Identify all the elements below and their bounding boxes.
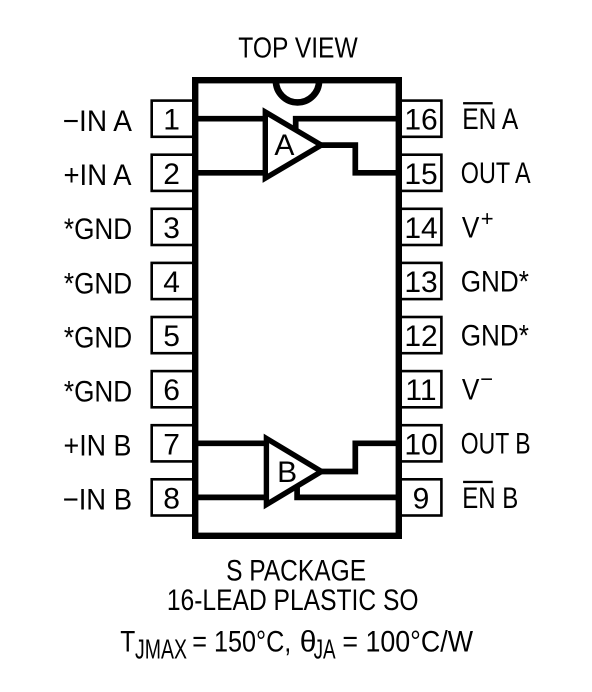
svg-text:16: 16 — [404, 104, 437, 137]
pin 11 — [399, 371, 442, 407]
pin 2 — [152, 155, 195, 191]
svg-text:5: 5 — [163, 320, 180, 353]
pin 14 — [399, 209, 442, 245]
svg-text:OUT B: OUT B — [461, 428, 531, 461]
svg-text:1: 1 — [163, 104, 180, 137]
svg-text:8: 8 — [163, 482, 180, 515]
svg-text:S PACKAGE: S PACKAGE — [226, 555, 366, 588]
label V+ (pin 14) — [462, 206, 494, 244]
pin 9 — [399, 479, 442, 515]
svg-text:V: V — [462, 211, 480, 244]
wire op-amp B output to pin10 — [320, 443, 399, 471]
wire pin1 to op-amp A — [195, 116, 268, 122]
pin 4 — [152, 263, 195, 299]
label V- (pin 11) — [462, 367, 493, 407]
wire EN A from pin16 to op-amp A — [296, 119, 399, 131]
svg-text:*GND: *GND — [64, 213, 132, 246]
svg-text:A: A — [274, 129, 294, 162]
wire op-amp A output to pin15 — [320, 145, 399, 173]
pin 12 — [399, 317, 442, 353]
svg-text:−IN A: −IN A — [63, 105, 132, 138]
svg-text:= 150°C,: = 150°C, — [192, 625, 291, 658]
svg-text:+IN B: +IN B — [64, 430, 132, 463]
pin 8 — [152, 479, 195, 515]
pin 6 — [152, 371, 195, 407]
svg-text:2: 2 — [163, 158, 180, 191]
svg-text:7: 7 — [163, 428, 180, 461]
pin 15 — [399, 155, 442, 191]
svg-text:−: − — [480, 367, 493, 392]
pin 1 — [152, 101, 195, 137]
svg-text:*GND: *GND — [64, 321, 132, 354]
pin 7 — [152, 425, 195, 461]
svg-text:JMAX: JMAX — [135, 634, 187, 665]
svg-text:GND*: GND* — [461, 265, 529, 298]
svg-text:4: 4 — [163, 266, 180, 299]
label EN B (pin 9, overline) — [462, 481, 518, 515]
svg-text:14: 14 — [404, 212, 437, 245]
label EN A (pin 16, overline) — [462, 102, 518, 136]
pin 13 — [399, 263, 442, 299]
svg-text:V: V — [462, 374, 480, 407]
wire pin7 to op-amp B — [195, 440, 269, 446]
svg-text:TOP VIEW: TOP VIEW — [238, 33, 358, 65]
svg-text:+IN A: +IN A — [64, 159, 132, 192]
svg-text:*GND: *GND — [64, 376, 132, 409]
svg-text:JA: JA — [314, 634, 336, 665]
op-amp A — [265, 112, 321, 178]
svg-text:T: T — [120, 625, 135, 658]
svg-text:OUT A: OUT A — [461, 157, 531, 190]
svg-text:16-LEAD PLASTIC SO: 16-LEAD PLASTIC SO — [167, 584, 419, 617]
svg-text:+: + — [481, 206, 494, 231]
svg-text:−IN B: −IN B — [63, 484, 132, 517]
svg-text:11: 11 — [405, 374, 436, 407]
svg-text:9: 9 — [413, 482, 430, 515]
svg-text:EN A: EN A — [462, 103, 518, 136]
IC body U1 — [195, 80, 399, 536]
svg-text:*GND: *GND — [64, 267, 132, 300]
pin 5 — [152, 317, 195, 353]
svg-text:= 100°C/W: = 100°C/W — [342, 625, 473, 658]
pin 3 — [152, 209, 195, 245]
svg-text:B: B — [277, 456, 297, 489]
notch — [276, 81, 319, 103]
svg-text:13: 13 — [404, 266, 437, 299]
svg-text:3: 3 — [163, 212, 180, 245]
pin 10 — [399, 425, 442, 461]
pin 16 — [399, 101, 442, 137]
wire pin8 to op-amp B — [195, 495, 269, 501]
svg-text:12: 12 — [404, 320, 437, 353]
svg-text:15: 15 — [404, 158, 437, 191]
svg-text:GND*: GND* — [461, 320, 529, 353]
svg-text:10: 10 — [404, 428, 437, 461]
op-amp B — [266, 438, 321, 504]
svg-text:EN B: EN B — [462, 482, 518, 515]
wire pin2 to op-amp A — [195, 170, 268, 176]
svg-text:6: 6 — [163, 374, 180, 407]
wire EN B from pin9 to op-amp B — [297, 486, 399, 498]
caption thermal note — [120, 625, 473, 664]
